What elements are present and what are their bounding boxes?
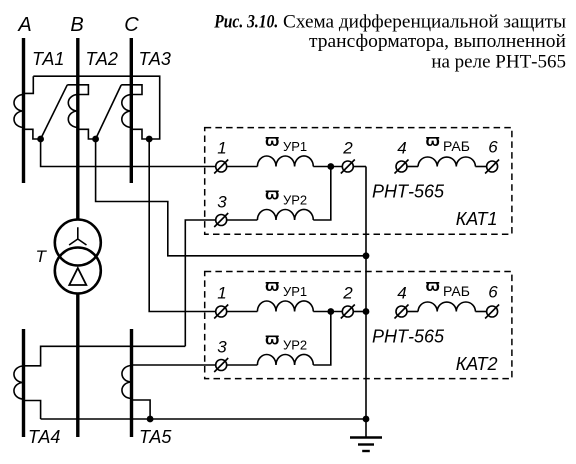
svg-text:1: 1 (217, 139, 226, 158)
KAT1 pin 2 (341, 160, 355, 174)
coil KAT2 w_ur1 (257, 301, 313, 312)
svg-text:ϖ: ϖ (265, 185, 279, 204)
wire TA1 to KAT1 terminal 1 (41, 139, 216, 167)
label w_ur2 KAT2 (265, 330, 307, 353)
svg-text:ТА1: ТА1 (32, 49, 64, 69)
KAT1 pin 4 (395, 160, 409, 174)
wire KAT1 coil to pin6 (475, 166, 486, 168)
wire KAT2 pin3 to coil (227, 364, 258, 366)
coil KAT1 w_ur1 (257, 156, 313, 167)
KAT2 pin 2 (341, 305, 355, 319)
wire KAT2 pin4 to coil (407, 311, 418, 313)
svg-text:C: C (124, 14, 139, 36)
svg-text:РНТ-565: РНТ-565 (372, 327, 445, 347)
svg-text:Т: Т (36, 247, 48, 266)
junction TA1 secondary node (37, 136, 44, 143)
KAT2 pin 1 (214, 305, 228, 319)
wire KAT2 pin1 to coil (227, 311, 258, 313)
relay KAT2 box (205, 272, 512, 379)
svg-text:6: 6 (488, 138, 498, 157)
KAT2 pin 4 (395, 305, 409, 319)
bus B (76, 38, 79, 437)
junction KAT1 coils node (327, 163, 334, 170)
label w_ur1 KAT1 (265, 131, 307, 154)
wire KAT1 pin3 to coil (227, 219, 258, 221)
ground (350, 438, 382, 452)
label w_ur1 KAT2 (265, 276, 307, 299)
junction TA5 with bottom return (147, 416, 154, 423)
label w_ur2 KAT1 (265, 185, 307, 208)
KAT2 pin 6 (485, 305, 499, 319)
svg-text:2: 2 (342, 284, 353, 303)
svg-text:B: B (70, 14, 83, 36)
svg-text:на реле РНТ-565: на реле РНТ-565 (431, 52, 566, 73)
wire bottom return TA4-TA5-ground (41, 418, 366, 420)
svg-text:4: 4 (397, 139, 406, 158)
bus C (130, 38, 133, 183)
wire KAT2 ur2 coil to node (313, 312, 331, 366)
bus TA5 (LV side) (130, 329, 133, 437)
svg-text:Рис. 3.10. Схема дифференциаль: Рис. 3.10. Схема дифференциальной защиты (213, 12, 566, 33)
wire TA3 to KAT2 terminal 1 (149, 139, 216, 312)
coil KAT1 w_rab (418, 157, 475, 167)
svg-text:ТА3: ТА3 (139, 49, 171, 69)
svg-text:трансформатора, выполненной: трансформатора, выполненной (309, 31, 566, 52)
svg-text:УР1: УР1 (283, 139, 307, 154)
svg-text:ϖ: ϖ (265, 131, 279, 150)
wire TA2 dot to TA3 notch (diagonal) (96, 85, 122, 139)
junction ground with bottom return (363, 416, 370, 423)
coil KAT2 w_rab (418, 302, 475, 312)
junction KAT2 pin2 with common (363, 308, 370, 315)
wire coil to node KAT2 (313, 311, 342, 313)
CT TA1 (14, 76, 41, 139)
wire TA1 dot to TA2 notch (diagonal) (41, 85, 68, 139)
svg-text:ϖ: ϖ (426, 131, 440, 150)
svg-text:3: 3 (217, 193, 227, 212)
svg-text:РАБ: РАБ (443, 283, 470, 299)
power transformer T (55, 220, 101, 294)
coil KAT2 w_ur2 (257, 354, 313, 365)
svg-text:КАТ1: КАТ1 (456, 209, 498, 229)
KAT1 pin 6 (485, 160, 499, 174)
bus TA4 (LV side) (22, 329, 25, 437)
svg-text:2: 2 (342, 139, 353, 158)
wire CT secondary top loop (33, 76, 159, 139)
svg-text:1: 1 (217, 284, 226, 303)
svg-text:УР1: УР1 (283, 284, 307, 299)
svg-text:4: 4 (397, 284, 406, 303)
svg-text:ТА4: ТА4 (28, 427, 60, 447)
wire KAT1 pin4 to coil (407, 166, 418, 168)
wire coil to node KAT1 (313, 166, 342, 168)
svg-text:РАБ: РАБ (443, 138, 470, 154)
svg-text:ϖ: ϖ (265, 330, 279, 349)
svg-text:ϖ: ϖ (426, 276, 440, 295)
CT TA2 (67, 85, 95, 139)
CT TA3 (121, 85, 149, 139)
KAT2 pin 3 (214, 358, 228, 372)
bus A (22, 38, 25, 183)
svg-text:6: 6 (488, 283, 498, 302)
junction KAT2 coils node (327, 308, 334, 315)
label w_rab KAT1 (426, 131, 470, 154)
wire KAT1 pin2 to common (353, 166, 366, 168)
wire KAT2 pin2 to common (353, 311, 366, 313)
wire KAT1 pin1 to coil (227, 166, 258, 168)
wire KAT2 coil to pin6 (475, 311, 486, 313)
wire KAT1 terminal 3 to TA4 (185, 220, 215, 346)
junction TA3 secondary node (146, 136, 153, 143)
svg-text:ϖ: ϖ (265, 276, 279, 295)
junction common with TA2 wire (363, 252, 370, 259)
wire common return vertical to ground (365, 167, 367, 438)
svg-text:УР2: УР2 (283, 193, 307, 208)
label w_rab KAT2 (426, 276, 470, 299)
svg-text:УР2: УР2 (283, 338, 307, 353)
svg-text:3: 3 (217, 338, 227, 357)
svg-text:A: A (17, 14, 31, 36)
relay KAT1 box (205, 128, 512, 235)
svg-text:ТА5: ТА5 (139, 427, 172, 447)
junction TA2 secondary node (92, 136, 99, 143)
KAT1 pin 3 (214, 213, 228, 227)
figure caption (213, 12, 566, 73)
svg-text:РНТ-565: РНТ-565 (372, 182, 445, 202)
KAT1 pin 1 (214, 160, 228, 174)
wire KAT1 ur2 coil to node (313, 167, 331, 221)
svg-text:ТА2: ТА2 (86, 49, 118, 69)
wire TA2 to common return (96, 139, 366, 256)
CT TA4 (14, 346, 185, 419)
coil KAT1 w_ur2 (257, 209, 313, 220)
CT TA5 (122, 365, 216, 419)
svg-text:КАТ2: КАТ2 (456, 354, 498, 374)
